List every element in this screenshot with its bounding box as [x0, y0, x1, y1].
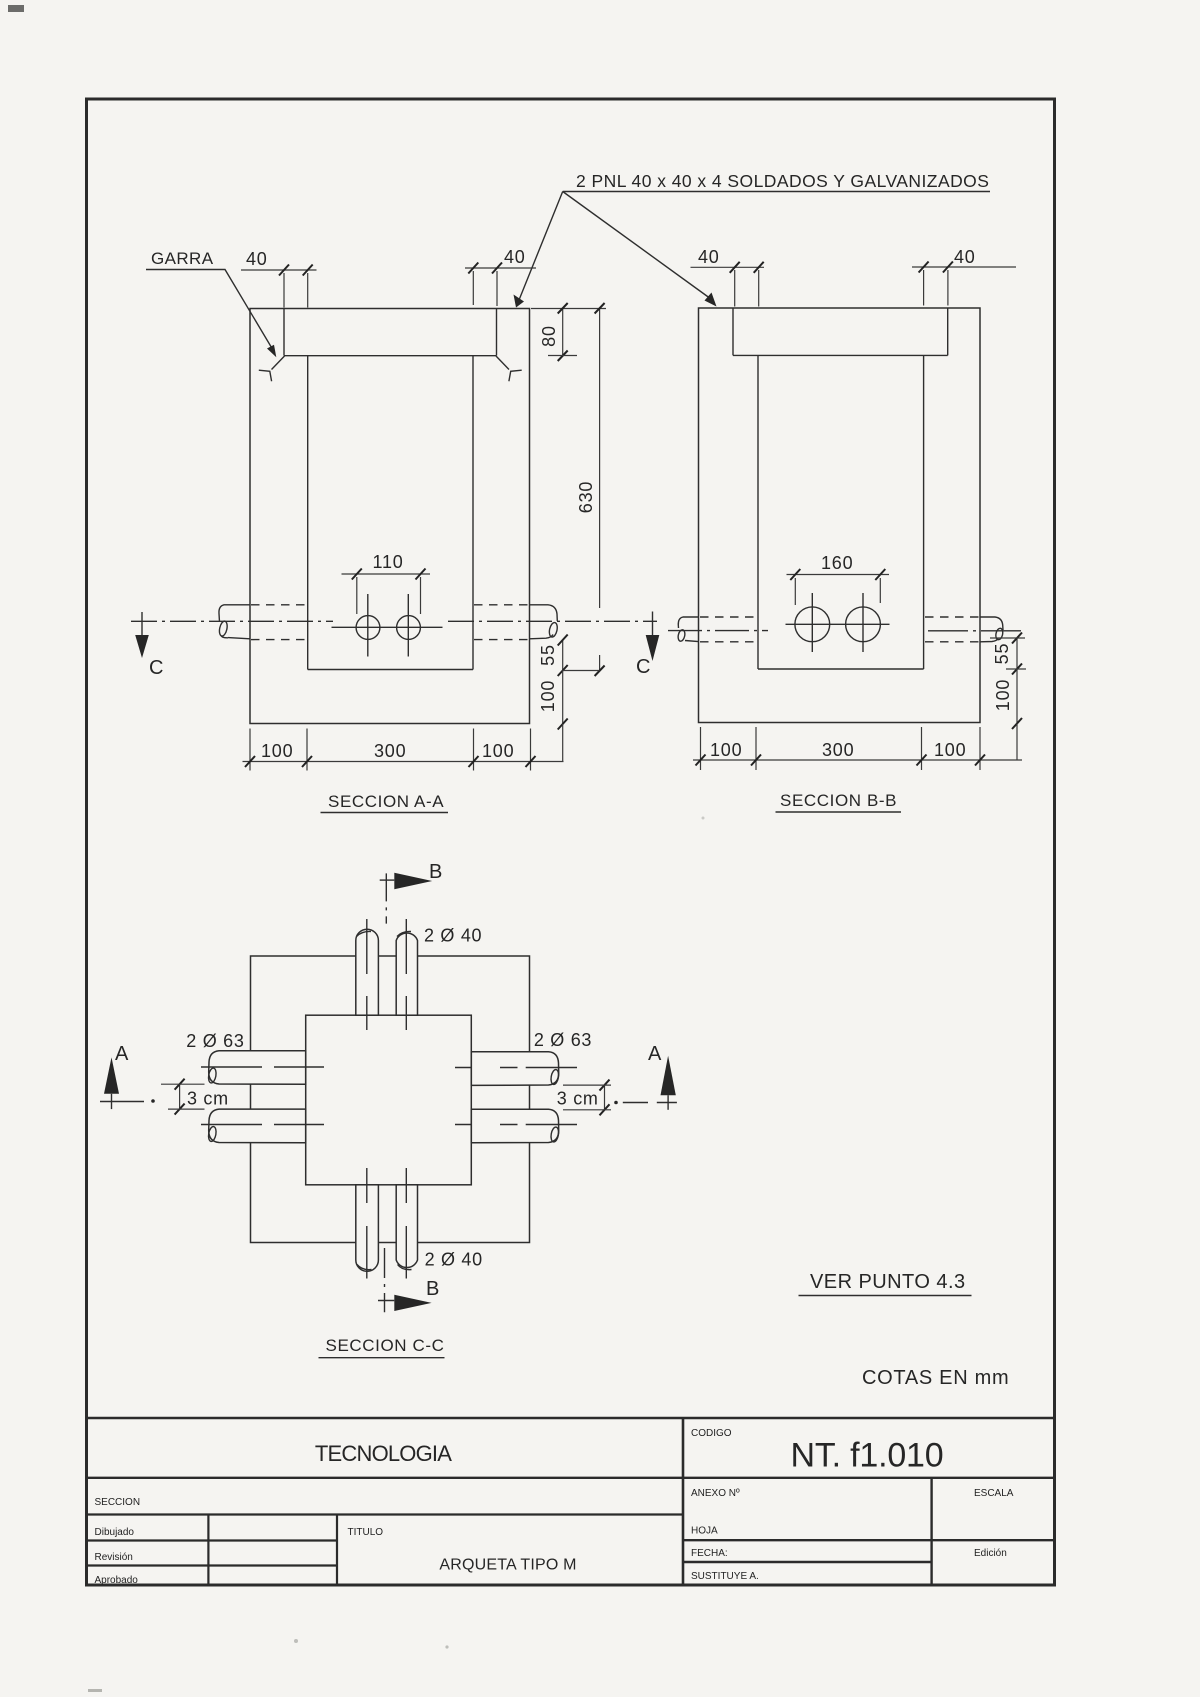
svg-text:HOJA: HOJA — [691, 1526, 718, 1537]
A-A garra claw right — [509, 370, 522, 381]
section arrow A right — [661, 1056, 676, 1095]
A-A left pipe hidden lines (dashed through wall) — [251, 604, 306, 606]
drawing border frame — [87, 99, 1055, 1585]
svg-text:C: C — [636, 656, 650, 678]
dimension 55/630 connector at chamber floor level — [563, 670, 600, 672]
bottom dimension line — [243, 761, 564, 763]
B-B dimension 55 right: line and ticks — [1016, 638, 1018, 669]
faint scan marks — [88, 1689, 102, 1692]
A-A pipe hole circle left — [356, 616, 380, 640]
svg-text:Aprobado: Aprobado — [95, 1575, 139, 1586]
svg-text:A: A — [648, 1043, 662, 1065]
B-B dimension 40 left: line and ticks — [691, 266, 765, 268]
B-B left pipe end ellipse — [677, 629, 686, 642]
title block top line — [87, 1417, 1055, 1420]
dimension 40 right: line and ticks — [465, 267, 536, 269]
row line under TECNOLOGIA / CODIGO — [87, 1477, 1055, 1479]
svg-text:SUSTITUYE A.: SUSTITUYE A. — [691, 1571, 759, 1582]
svg-text:COTAS EN mm: COTAS EN mm — [862, 1367, 1009, 1389]
svg-text:55: 55 — [538, 644, 558, 666]
A-A circle axis horizontal — [332, 626, 443, 628]
svg-text:NT. f1.010: NT. f1.010 — [791, 1437, 944, 1475]
A-A right pipe end ellipse — [548, 622, 558, 638]
svg-text:100: 100 — [934, 740, 966, 760]
svg-text:GARRA: GARRA — [151, 249, 214, 268]
C-C bottom pipe 1 — [356, 1185, 379, 1272]
A-A pipe hole circle right — [397, 616, 421, 640]
B-B left pipe hidden lines — [700, 616, 756, 618]
svg-text:C: C — [149, 657, 163, 679]
C-C right pipe 1 end ellipse — [550, 1069, 560, 1085]
row line under SECCION — [87, 1513, 684, 1515]
svg-text:TITULO: TITULO — [348, 1527, 384, 1538]
row line under FECHA — [683, 1561, 932, 1563]
B-B circle axis horizontal — [786, 623, 890, 625]
svg-text:110: 110 — [373, 552, 404, 572]
svg-text:80: 80 — [539, 325, 559, 347]
C-C bottom pipe centrelines — [366, 1168, 368, 1279]
svg-text:2 Ø 63: 2 Ø 63 — [534, 1030, 592, 1050]
dimension 40 right: extension lines — [472, 271, 474, 305]
B-B lid left edge (cut, thick) — [732, 308, 734, 355]
B-B right pipe hidden lines — [925, 616, 979, 618]
vertical divider: CODIGO column — [682, 1418, 685, 1585]
C-C left pipe 2 — [209, 1109, 306, 1143]
dimension 80: line and ticks — [562, 309, 564, 356]
svg-text:300: 300 — [822, 740, 854, 760]
A-A pipe centreline (dash-dot) — [131, 620, 657, 622]
B-B right pipe end ellipse — [995, 628, 1004, 641]
B-B circle axis vertical right — [862, 593, 864, 652]
svg-text:2 Ø 40: 2 Ø 40 — [424, 926, 482, 946]
B-B bottom dimension line — [693, 759, 1022, 761]
svg-text:Revisión: Revisión — [95, 1552, 133, 1563]
B-B inner wall left — [757, 355, 759, 669]
svg-text:2 Ø 40: 2 Ø 40 — [425, 1250, 483, 1270]
svg-text:B: B — [426, 1278, 439, 1300]
A-A lid bottom — [284, 355, 497, 357]
B-B bottom dimension ticks — [696, 755, 706, 766]
A-A outer wall outline — [250, 309, 530, 724]
A-A chamber floor — [308, 669, 473, 671]
B-B outer wall outline — [699, 308, 981, 723]
A-A lid corner chamfer left — [272, 356, 285, 370]
section arrow B bottom — [384, 1248, 386, 1312]
svg-text:Edición: Edición — [974, 1548, 1007, 1559]
svg-text:SECCION C-C: SECCION C-C — [326, 1336, 445, 1355]
vertical divider: ESCALA column — [930, 1478, 932, 1585]
B-B pipe centreline left — [668, 630, 768, 632]
svg-text:B: B — [429, 861, 442, 883]
A-A circle axis vertical right — [407, 594, 409, 657]
A-A inner wall right — [472, 356, 474, 670]
svg-text:55: 55 — [992, 643, 1012, 665]
B-B lid right edge (cut, thick) — [947, 308, 949, 355]
svg-text:630: 630 — [576, 481, 596, 513]
svg-text:40: 40 — [954, 247, 976, 267]
C-C dimension 3 cm left — [179, 1084, 181, 1109]
B-B circle axis vertical left — [811, 593, 813, 652]
svg-text:160: 160 — [821, 553, 853, 573]
svg-text:100: 100 — [482, 741, 514, 761]
C-C left pipe 1 (horizontal tube) — [209, 1051, 306, 1085]
B-B bottom dimensions extension lines — [700, 727, 702, 770]
svg-text:SECCION B-B: SECCION B-B — [780, 791, 897, 810]
A-A right pipe outline — [530, 605, 558, 621]
svg-text:ARQUETA TIPO M: ARQUETA TIPO M — [439, 1557, 576, 1574]
C-C left pipe centrelines — [201, 1066, 324, 1068]
svg-text:2 PNL 40 x 40 x 4 SOLDADOS Y G: 2 PNL 40 x 40 x 4 SOLDADOS Y GALVANIZADO… — [576, 171, 989, 191]
B-B left pipe outline — [678, 617, 698, 628]
C-C dimension 3 cm right — [604, 1085, 606, 1110]
section arrow A left — [104, 1057, 119, 1093]
svg-text:100: 100 — [710, 740, 742, 760]
svg-text:100: 100 — [538, 680, 558, 712]
note underline — [563, 191, 990, 193]
C-C inner square — [306, 1015, 472, 1185]
B-B pipe hole circle right — [846, 607, 881, 642]
A-A circle axis vertical left — [367, 594, 369, 657]
vertical divider: label column — [207, 1515, 209, 1586]
A-A left pipe end ellipse — [218, 620, 228, 636]
svg-text:ANEXO Nº: ANEXO Nº — [691, 1488, 740, 1499]
vertical divider: TITULO column — [336, 1515, 338, 1586]
leader arrow to section A-A lid — [519, 192, 563, 301]
svg-text:VER PUNTO 4.3: VER PUNTO 4.3 — [810, 1271, 966, 1293]
B-B dimension 100 vertical: line and tick — [1016, 669, 1018, 724]
A-A left pipe outline — [219, 605, 250, 622]
GARRA leader line — [146, 270, 273, 351]
svg-text:SECCION: SECCION — [95, 1497, 141, 1508]
dimension 110: extension lines — [356, 577, 358, 614]
A-A right pipe hidden lines — [474, 604, 529, 606]
B-B dimension 160: extension lines — [794, 578, 796, 605]
A-A lid left edge — [283, 309, 285, 356]
C-C left pipe 1 end ellipse — [207, 1067, 217, 1083]
svg-text:ESCALA: ESCALA — [974, 1488, 1014, 1499]
svg-text:300: 300 — [374, 741, 406, 761]
B-B pipe centreline right — [928, 630, 1021, 632]
dimension 100 vertical: line and tick — [562, 671, 564, 725]
B-B dimension 40 left: extension lines — [734, 270, 736, 307]
B-B inner wall right — [923, 355, 925, 669]
B-B dimension 40 right: line and ticks — [912, 266, 1016, 268]
A-A lid corner chamfer right — [496, 356, 509, 370]
svg-text:100: 100 — [993, 679, 1013, 711]
row line under Revision — [87, 1564, 338, 1566]
B-B right pipe outline — [980, 617, 1003, 630]
svg-text:40: 40 — [504, 247, 526, 267]
C-C right pipe 1 — [471, 1052, 558, 1086]
dimension 80: top extension line — [531, 308, 606, 310]
svg-text:40: 40 — [246, 249, 268, 269]
svg-text:Dibujado: Dibujado — [95, 1527, 135, 1538]
B-B dimension 160: line and ticks — [787, 574, 890, 576]
A-A lid right edge — [496, 309, 498, 356]
leader arrow to section B-B lid — [563, 192, 711, 300]
C-C bottom pipe 2 — [396, 1185, 417, 1268]
svg-text:FECHA:: FECHA: — [691, 1548, 728, 1559]
A-A garra claw left — [259, 370, 272, 381]
C-C outer square — [251, 956, 530, 1243]
C-C top pipe 1 (vertical tube) — [356, 929, 379, 1015]
scan speck top-left — [8, 5, 24, 12]
C-C top pipe centrelines — [366, 919, 368, 1030]
B-B dimension 40 right: extension lines — [923, 270, 925, 306]
dimension 40 left: line and ticks — [241, 269, 317, 271]
svg-text:40: 40 — [698, 247, 720, 267]
section arrow B top — [385, 873, 387, 923]
dimension 630: line and ticks — [599, 309, 601, 609]
dimension 40 left: extension lines — [283, 273, 285, 308]
svg-text:SECCION A-A: SECCION A-A — [328, 792, 444, 811]
GARRA leader arrowhead — [267, 345, 276, 358]
dimension 110: line and ticks — [342, 573, 431, 575]
dimension 55: line and ticks — [562, 640, 564, 671]
section cut marker C left — [141, 612, 143, 636]
bottom dimensions extension lines — [249, 729, 251, 771]
svg-text:TECNOLOGIA: TECNOLOGIA — [315, 1441, 452, 1466]
B-B chamber floor — [758, 668, 924, 670]
C-C right pipe 2 — [471, 1109, 558, 1143]
bottom dimension ticks — [245, 756, 255, 767]
svg-text:3 cm: 3 cm — [187, 1089, 229, 1109]
svg-text:2 Ø 63: 2 Ø 63 — [186, 1031, 244, 1051]
C-C top pipe 2 — [396, 933, 417, 1015]
B-B pipe hole circle left — [795, 607, 830, 642]
B-B lid bottom (cut, thick) — [733, 354, 948, 356]
row line under Dibujado / ANEXO+HOJA — [87, 1539, 338, 1541]
A-A inner wall left — [307, 356, 309, 670]
svg-text:A: A — [115, 1043, 129, 1065]
section cut marker C right — [652, 612, 654, 637]
C-C right pipe centrelines — [455, 1067, 577, 1069]
svg-text:100: 100 — [261, 741, 293, 761]
svg-text:3 cm: 3 cm — [557, 1089, 599, 1109]
svg-text:CODIGO: CODIGO — [691, 1428, 732, 1439]
